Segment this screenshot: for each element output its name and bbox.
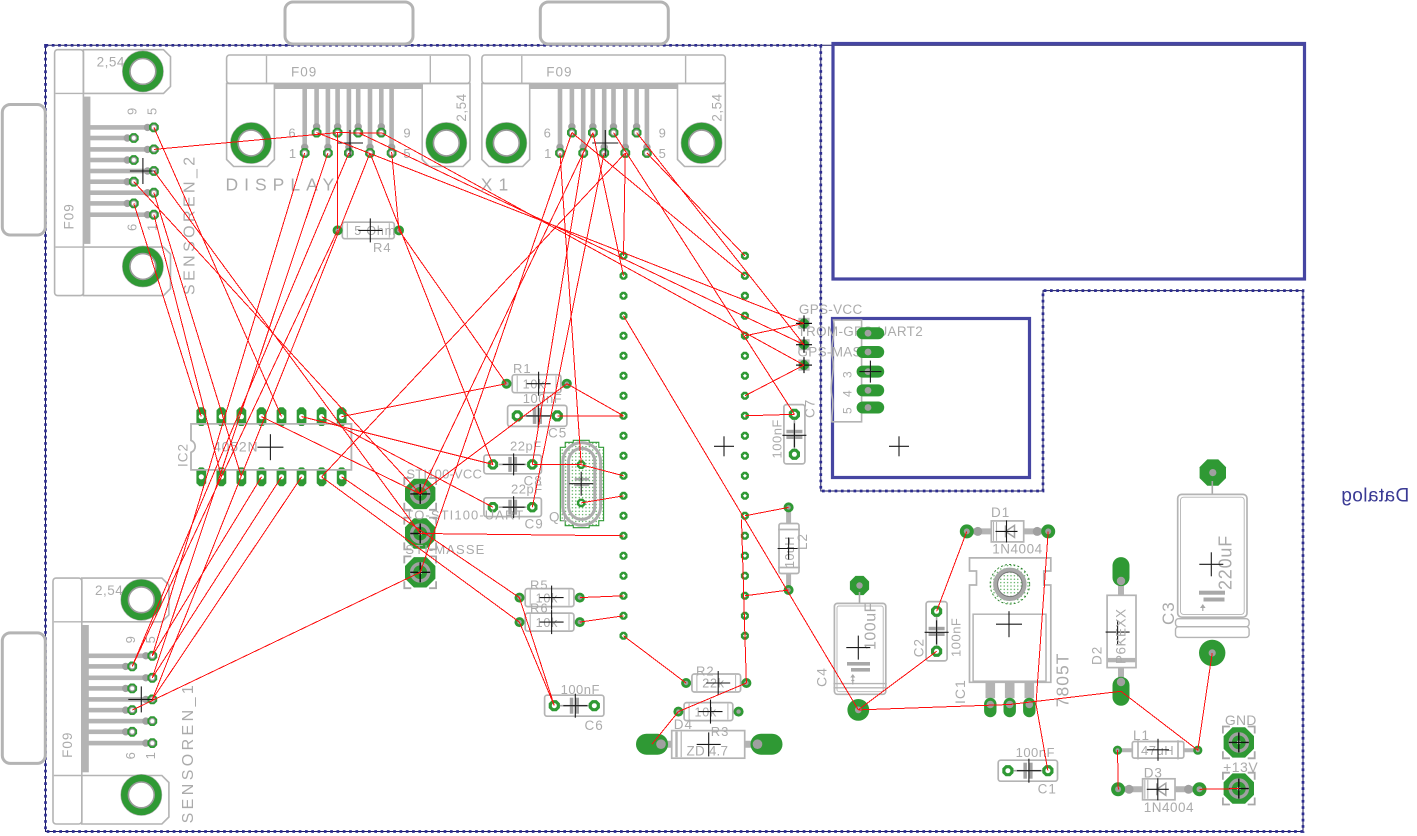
wire [1010,691,1121,704]
svg-text:9: 9 [659,125,667,140]
svg-text:UART2: UART2 [878,324,924,339]
connector SENSOREN_2 (D-sub F09) [2,50,198,296]
svg-text:D4: D4 [674,717,693,732]
svg-text:R6: R6 [530,601,549,616]
wire [1199,788,1239,791]
svg-text:100nF: 100nF [770,419,785,458]
wire [342,477,520,598]
wire [652,712,678,745]
wire [519,598,554,706]
svg-text:C5: C5 [548,426,567,441]
wire [858,651,936,710]
wire [152,153,370,699]
wire [322,417,493,508]
wire [1117,750,1120,789]
capacitor C1 (100nF) [998,745,1057,797]
svg-text:5 Ohm: 5 Ohm [354,224,396,238]
svg-text:6: 6 [125,223,140,231]
svg-text:SENSOREN_1: SENSOREN_1 [180,682,197,824]
diode D1 (1N4004) [960,505,1055,557]
wire [745,636,747,683]
svg-text:L1: L1 [1133,728,1150,743]
wire [614,133,795,415]
diode D4 (ZD 4.7 zener) [636,717,783,759]
wire [152,477,301,700]
capacitor C2 (100nF) [912,602,964,661]
wire [152,477,261,656]
svg-text:C4: C4 [814,667,830,687]
wire [745,507,789,515]
module origin cross [714,445,734,447]
svg-text:D1: D1 [991,505,1010,520]
svg-text:GPS-VCC: GPS-VCC [799,302,863,317]
GPS connector J1 (5-pin SMD) [831,320,884,422]
svg-text:ZD 4.7: ZD 4.7 [687,744,729,759]
pad GND [1223,727,1255,759]
resistor R6 (10k) [515,601,585,634]
GPS module outline (blue rectangle) [833,319,1030,478]
wire [302,417,493,465]
svg-text:D2: D2 [1090,646,1105,665]
svg-text:6: 6 [544,125,552,140]
diode D3 (1N4004) [1111,766,1206,816]
wire [532,463,581,465]
pad GPS-VCC [796,315,812,331]
svg-text:R3: R3 [711,724,730,739]
wire [154,193,242,477]
svg-text:F09: F09 [291,65,317,80]
svg-text:TO-STI100-UART: TO-STI100-UART [405,507,524,522]
svg-text:5: 5 [145,107,160,115]
connector DISPLAY (D-sub F09) [226,2,471,195]
wire [154,133,338,150]
pad STI-MASSE [404,556,436,588]
wire [338,132,382,135]
wire [420,133,593,494]
wire [370,153,493,464]
svg-text:F09: F09 [60,732,75,758]
wire [581,465,623,476]
svg-text:C3: C3 [1159,601,1178,625]
svg-text:F09: F09 [546,65,572,80]
wire [593,133,624,276]
connector X1 (D-sub F09) [481,2,726,195]
IC U2 (IC2 4052N DIP-16) [175,407,351,486]
wire [262,417,421,494]
svg-text:4: 4 [841,389,855,397]
svg-text:100uF: 100uF [863,602,880,650]
wire [342,384,507,417]
svg-text:1N4004: 1N4004 [1144,800,1194,815]
pad GPS-UART [796,337,812,353]
wire [154,215,222,477]
wire [637,133,804,345]
wire [532,153,583,464]
wire [221,230,337,476]
wire [420,534,623,536]
wire [580,596,624,598]
svg-text:22k: 22k [702,677,725,691]
svg-text:IC2: IC2 [175,443,190,467]
wire [420,133,572,573]
svg-text:P6KEXX: P6KEXX [1114,608,1129,664]
resistor R3 (10k) [673,700,743,724]
svg-text:DISPLAY: DISPLAY [226,175,341,195]
capacitor C8 (22pF) [484,439,543,489]
capacitor C6 (100nF) [545,682,604,733]
wire [1198,653,1212,750]
wire [745,323,804,335]
wire [337,133,339,229]
svg-text:9: 9 [123,635,138,643]
svg-text:22pF: 22pF [510,439,542,454]
capacitor C5 (100nF) [508,391,568,441]
wire [647,153,745,256]
svg-text:C9: C9 [525,517,544,532]
wire [154,171,420,534]
wire [134,182,420,494]
svg-text:100nF: 100nF [1016,745,1055,760]
wire [1121,691,1198,750]
svg-text:IC1: IC1 [952,679,968,704]
wire [134,203,202,416]
wire [152,153,304,656]
svg-text:1N4004: 1N4004 [992,542,1042,557]
svg-text:9: 9 [403,125,411,140]
svg-text:5: 5 [659,146,667,161]
svg-text:C2: C2 [912,638,927,657]
wire [317,133,804,324]
svg-text:10k: 10k [695,705,718,719]
wire [624,153,626,256]
wire [745,414,795,416]
svg-text:STI100-VCC: STI100-VCC [406,467,482,482]
wire [567,384,624,416]
capacitor C3 (220uF electrolytic) [1159,459,1249,666]
wire [381,133,804,366]
wire [678,683,746,712]
svg-text:GND: GND [1225,712,1257,728]
wire [557,415,623,417]
wire [745,365,804,396]
wire [532,153,604,507]
svg-text:C7: C7 [803,399,818,418]
pad +13V [1223,773,1255,805]
svg-text:C6: C6 [585,718,604,733]
wire [132,572,420,710]
svg-text:1: 1 [544,146,552,161]
wire [322,477,520,622]
resistor R2 (22k) [681,664,751,696]
svg-text:Q1: Q1 [549,510,569,525]
resistor R1 (10k) [502,361,572,396]
svg-text:220uF: 220uF [1216,535,1236,590]
module pin header column B [741,252,749,640]
capacitor C9 (22pF) [484,482,544,532]
svg-text:3: 3 [841,370,855,378]
svg-text:2,54: 2,54 [454,93,469,121]
crystal Q1 [549,440,604,527]
wire [154,127,282,416]
wire [420,384,567,494]
wire [858,705,1009,710]
wire [152,153,328,678]
pad GPS-MASSE [796,357,812,373]
svg-text:C1: C1 [1038,782,1057,797]
wire [742,520,745,636]
svg-text:Datalog: Datalog [1341,486,1409,507]
wire [399,230,506,383]
wire [392,152,399,230]
svg-text:L2: L2 [795,533,810,550]
wire [581,496,623,503]
wire [519,622,554,706]
GPS module origin cross [889,445,909,447]
module outline (top-right blue rectangle) [833,44,1305,280]
wire [560,153,581,465]
svg-text:10k: 10k [523,377,546,391]
capacitor C7 (100nF) [770,399,818,464]
svg-text:1: 1 [289,146,297,161]
svg-text:5: 5 [841,406,855,414]
inductor L1 (47uH) [1113,728,1203,761]
wire [358,133,804,345]
mirrored text Datalog [1341,486,1409,507]
svg-text:100nF: 100nF [949,618,964,657]
capacitor C4 (100uF electrolytic) [814,576,887,721]
svg-text:R1: R1 [513,361,532,376]
svg-text:F09: F09 [62,203,77,229]
inductor L2 (10uH) [778,502,810,595]
svg-text:2,54: 2,54 [95,583,123,598]
diode D2 (P6KEXX) [1090,557,1137,706]
svg-text:2,54: 2,54 [97,55,125,70]
wire [322,153,626,477]
module pin header column A [620,252,628,640]
svg-text:100nF: 100nF [561,682,600,697]
wire [572,133,745,276]
svg-text:SENSOREN_2: SENSOREN_2 [182,153,199,295]
svg-text:STI-MASSE: STI-MASSE [405,542,485,557]
wire [1036,531,1048,704]
wire [152,477,281,678]
pad TO-STI100-UART [404,518,436,550]
svg-text:10k: 10k [536,616,559,630]
wire [937,531,967,611]
wire [132,153,349,666]
resistor R4 (5 Ohm) [333,218,404,255]
wire [745,590,789,596]
svg-text:R4: R4 [373,240,392,255]
resistor R5 (10k) [515,577,585,609]
svg-text:2,54: 2,54 [709,93,724,121]
pad STI100-VCC [404,478,436,510]
svg-text:X1: X1 [481,175,514,195]
connector SENSOREN_1 (D-sub F09) [2,578,197,824]
svg-text:6: 6 [288,125,296,140]
wire [1036,704,1048,771]
svg-text:9: 9 [125,107,140,115]
wire [580,616,624,622]
wire [624,636,687,683]
IC U1 (IC1 7805T voltage regulator) [952,558,1072,717]
svg-text:+13V: +13V [1223,759,1258,775]
wire [624,316,859,710]
svg-text:22pF: 22pF [511,482,543,497]
svg-text:1: 1 [143,751,158,759]
wire [132,477,221,667]
svg-text:D3: D3 [1144,766,1163,781]
svg-text:R2: R2 [696,664,715,679]
svg-text:6: 6 [123,751,138,759]
svg-text:R5: R5 [530,577,549,592]
